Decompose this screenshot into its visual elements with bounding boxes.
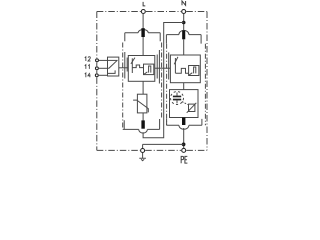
trigger device diagonal: [187, 103, 197, 113]
right module bottom plug-in contact: [167, 119, 202, 125]
left disconnector switch stroke: [131, 58, 133, 73]
node PE label: [181, 156, 187, 163]
left disconnector trip diagonal: [131, 58, 135, 64]
FM contact 11 common lead: [108, 67, 109, 69]
wire varistor to bottom plug: [142, 113, 144, 121]
left thermal step symbol: [144, 66, 151, 74]
FM contact 12 fixed contact line: [108, 59, 118, 61]
wire plug to right disconnector box: [183, 39, 185, 55]
node L terminal label: [143, 2, 145, 6]
terminal label 11: [85, 65, 90, 69]
junction dot PE node: [182, 143, 186, 147]
right disconnector switch stroke: [174, 58, 176, 73]
FM contact blade: [109, 60, 118, 68]
dashed trigger link: [182, 102, 188, 105]
wire N down to right module plug: [183, 14, 185, 31]
spark gap leads: [176, 93, 178, 104]
wire L down to left module plug: [142, 14, 144, 29]
spark gap box: [170, 90, 199, 118]
terminal circle 14: [95, 74, 98, 77]
varistor diagonal with tails: [133, 100, 148, 112]
terminal label 14: [85, 73, 91, 77]
plug-in contact bar right of N wire: [168, 52, 170, 79]
terminal circle 11: [95, 67, 98, 70]
right module dashed boundary left side: [166, 44, 168, 126]
plug-in contact bar left outer: [124, 52, 126, 79]
terminal circle 12: [96, 59, 99, 62]
wire N branch to L-N varistor path: [143, 23, 184, 138]
mechanical link FM box to left disconnector: [119, 67, 128, 69]
wire plug to left disconnector box: [142, 37, 144, 56]
FM remote signalling changeover contact box: [108, 57, 119, 76]
right disconnector trip diagonal: [174, 57, 178, 64]
wire right module to PE junction: [183, 128, 185, 148]
spark gap electrodes: [173, 96, 181, 98]
right disconnector dynamic pulse: [175, 68, 188, 73]
right thermal step symbol: [189, 67, 196, 75]
wire 12 to FM contact box: [99, 59, 108, 61]
left thermal disconnect small box: [144, 64, 154, 75]
node PE terminal circle: [182, 148, 186, 152]
node L terminal circle: [141, 10, 145, 14]
left module dashed boundary right side: [161, 43, 163, 119]
right module top plug-in contact: [166, 35, 201, 44]
plug-in contact bar mid outer: [158, 50, 160, 84]
wire 14 to FM contact box: [99, 74, 108, 76]
node N terminal circle: [182, 10, 186, 14]
FM contact 14 fixed contact line: [108, 70, 116, 73]
junction dot on N wire: [182, 21, 186, 25]
wire disconnector to spark gap box: [183, 83, 185, 90]
device boundary dash-dot frame: [97, 12, 207, 151]
right thermal disconnect small box: [189, 66, 199, 76]
right module dashed boundary right side: [204, 44, 206, 126]
earthing conductor line: [143, 144, 184, 148]
node N terminal label: [182, 1, 186, 5]
plug-in contact bar left inner: [126, 58, 128, 72]
left module dashed boundary left side: [122, 43, 124, 130]
left disconnector dynamic pulse: [132, 65, 143, 68]
ground terminal circle: [141, 149, 145, 153]
left disconnector box (Thermo-Dynamik-Control): [128, 56, 155, 82]
varistor rectangle: [137, 94, 147, 113]
wire disconnector to varistor: [142, 81, 144, 94]
trigger device box: [189, 104, 195, 111]
wire 11 to FM contact box: [99, 67, 108, 69]
plug-in contact bar mid inner: [156, 55, 158, 79]
left module bottom plug-in contact: [123, 119, 160, 129]
right disconnector box: [170, 55, 200, 83]
left module top plug-in contact (socket bar, arms, arc, pin): [125, 33, 160, 42]
spark gap dashed enclosure circle: [171, 92, 184, 105]
terminal label 12: [85, 57, 91, 61]
link line left box to right box: [155, 67, 171, 69]
ground symbol: [139, 153, 146, 161]
